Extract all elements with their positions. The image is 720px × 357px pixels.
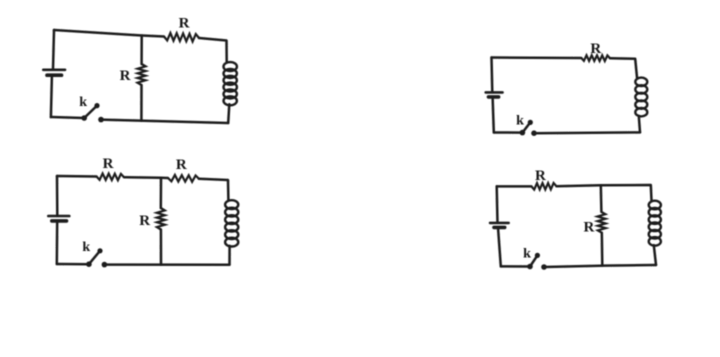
resistor R (middle, vertical) (138, 64, 146, 85)
wire bottom-left (501, 265, 530, 268)
switch k lever tip dot (528, 120, 533, 125)
svg-text:R: R (590, 41, 601, 57)
svg-text:k: k (79, 95, 87, 110)
wire top-right (610, 58, 637, 77)
svg-text:R: R (120, 68, 131, 84)
svg-text:R: R (179, 15, 190, 31)
switch k terminal dot (541, 264, 547, 270)
wire left (below battery) (51, 76, 52, 118)
switch k lever tip dot (97, 248, 102, 253)
wire coil bottom to corner (654, 245, 656, 265)
wire middle branch upper (140, 36, 143, 65)
switch k lever (522, 122, 530, 132)
wire bottom (right segment) (104, 263, 229, 266)
svg-text:R: R (583, 219, 594, 235)
wire bottom (right segment) (544, 265, 656, 267)
switch k terminal dot (102, 262, 108, 268)
switch k lever (84, 106, 97, 118)
wire bottom-left (494, 131, 523, 134)
circuit 3 (top-right) (486, 41, 648, 136)
wire bottom-left (57, 263, 89, 266)
resistor R (middle, vertical) (598, 212, 606, 233)
switch k pivot dot (527, 264, 533, 270)
wire middle branch lower (601, 233, 604, 266)
switch k lever (530, 255, 537, 266)
inductor L (right branch coil) (635, 78, 647, 117)
battery cell short plate (489, 95, 499, 99)
wire left (above battery) (53, 30, 54, 70)
resistor R (top, horizontal) (581, 55, 610, 61)
circuit 2 (bottom-left) (48, 156, 238, 267)
wire bottom (right segment) (534, 131, 640, 134)
inductor L (right branch coil) (224, 62, 237, 105)
resistor R (top-left, horizontal) (97, 174, 125, 181)
wire middle branch upper (600, 185, 603, 212)
svg-text:k: k (516, 114, 524, 129)
resistor R (top-right, horizontal) (168, 175, 199, 182)
circuit 4 (bottom-right) (490, 168, 661, 270)
svg-text:R: R (176, 157, 187, 173)
battery cell long plate (486, 91, 503, 94)
inductor L (right branch coil) (225, 200, 238, 246)
wire top-middle to top-right (556, 185, 651, 201)
switch k terminal dot (98, 117, 104, 123)
resistor R (top, horizontal) (531, 183, 556, 190)
svg-text:R: R (139, 213, 150, 229)
wire left (below battery) (56, 221, 59, 264)
resistor R (top, horizontal) (164, 33, 199, 42)
switch k lever (89, 251, 100, 264)
wire top-right to corner (199, 38, 227, 62)
wire left (above battery) (495, 186, 498, 223)
wire top-left (492, 56, 582, 59)
resistor R (middle, vertical) (157, 208, 165, 230)
wire top-middle (124, 176, 168, 179)
wire coil bottom to corner (228, 246, 231, 265)
wire top-left (57, 175, 97, 178)
switch k pivot dot (86, 261, 92, 267)
switch k lever tip dot (535, 253, 540, 258)
wire middle branch lower (140, 85, 143, 121)
wire top-right (199, 179, 228, 201)
wire left (below battery) (498, 228, 501, 267)
switch k terminal dot (531, 130, 537, 136)
inductor L (right branch coil) (649, 201, 661, 246)
wire coil bottom to corner (639, 116, 640, 132)
wire middle branch lower (160, 230, 163, 265)
wire coil bottom to corner (228, 104, 229, 123)
svg-text:k: k (82, 240, 90, 255)
switch k lever tip dot (94, 103, 99, 108)
wire left (below battery) (493, 97, 494, 133)
switch k pivot dot (81, 115, 87, 121)
wire bottom-left (51, 117, 84, 118)
svg-text:k: k (523, 246, 531, 261)
wire left (above battery) (490, 58, 493, 93)
battery cell short plate (52, 219, 67, 223)
wire top-left (497, 185, 532, 188)
wire top (node A to node B) (54, 30, 164, 37)
svg-text:R: R (535, 168, 546, 184)
wire bottom (right segment) (101, 120, 228, 123)
battery cell long plate (490, 222, 509, 225)
svg-text:R: R (103, 156, 114, 172)
battery cell long plate (48, 215, 69, 218)
battery cell short plate (47, 73, 62, 77)
battery cell long plate (43, 69, 65, 72)
switch k pivot dot (520, 130, 526, 136)
wire left (above battery) (56, 176, 59, 216)
wire middle branch upper (160, 178, 163, 208)
circuit 1 (top-left) (43, 15, 237, 123)
battery cell short plate (494, 226, 505, 230)
